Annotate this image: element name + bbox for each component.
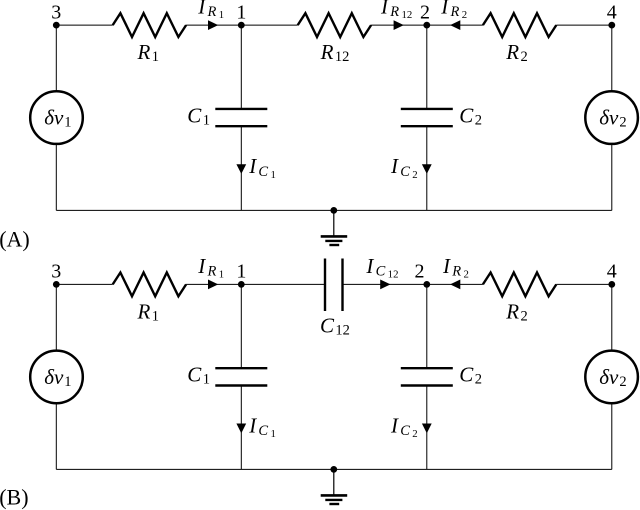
svg-text:3: 3 bbox=[51, 261, 61, 283]
svg-text:(B): (B) bbox=[0, 485, 29, 510]
svg-text:1: 1 bbox=[236, 261, 246, 283]
svg-text:4: 4 bbox=[607, 1, 617, 23]
svg-text:2: 2 bbox=[420, 1, 430, 23]
svg-text:3: 3 bbox=[51, 1, 61, 23]
svg-text:4: 4 bbox=[607, 261, 617, 283]
svg-text:1: 1 bbox=[236, 1, 246, 23]
svg-text:2: 2 bbox=[415, 261, 425, 283]
svg-text:(A): (A) bbox=[0, 227, 30, 252]
